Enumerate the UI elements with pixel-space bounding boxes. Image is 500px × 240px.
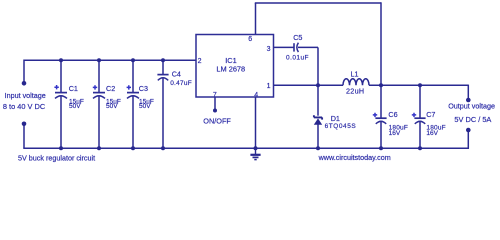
- wire switch node vertical: [317, 47, 319, 115]
- svg-text:C5: C5: [293, 33, 302, 42]
- svg-text:D1: D1: [331, 114, 340, 123]
- wire C1 branch: [60, 60, 62, 148]
- capacitor C1 plus sign: [54, 85, 58, 89]
- wire bottom ground rail: [23, 147, 468, 149]
- node C3 top: [131, 58, 135, 62]
- svg-text:C7: C7: [426, 110, 435, 119]
- node C7 bottom: [418, 146, 422, 150]
- svg-text:6: 6: [248, 36, 252, 43]
- wire C5 to switch node: [298, 46, 318, 48]
- wire output right top stub: [467, 85, 469, 100]
- capacitor C7 plus sign: [412, 113, 416, 117]
- wire feedback vertical: [380, 2, 382, 85]
- svg-text:50V: 50V: [106, 103, 118, 110]
- svg-text:3: 3: [267, 46, 271, 53]
- node feedback junction: [379, 83, 383, 87]
- wire C2 branch: [98, 60, 100, 148]
- node C2 top: [97, 58, 101, 62]
- node pin4 ground: [254, 146, 258, 150]
- svg-text:7: 7: [213, 92, 217, 99]
- capacitor C6 plus sign: [373, 113, 377, 117]
- node input bottom terminal: [22, 122, 27, 127]
- svg-text:Output voltage: Output voltage: [448, 101, 495, 110]
- svg-text:16V: 16V: [426, 130, 438, 137]
- wire C3 branch: [132, 60, 134, 148]
- wire pin1 to L1: [274, 84, 344, 86]
- node pin7 end: [213, 109, 217, 113]
- svg-text:0.01uF: 0.01uF: [286, 54, 309, 61]
- svg-text:C1: C1: [69, 84, 78, 93]
- capacitor C7 symbol: [414, 118, 425, 124]
- wire pin6 to top rail: [255, 3, 257, 35]
- svg-text:5V buck regulator circuit: 5V buck regulator circuit: [18, 153, 95, 162]
- node C4 bottom: [161, 146, 165, 150]
- capacitor C2 plus sign: [93, 85, 97, 89]
- capacitor C2 symbol: [93, 93, 105, 99]
- inductor L1 coil: [343, 79, 369, 86]
- node C6 bottom: [379, 146, 383, 150]
- wire pin7 stub: [214, 97, 216, 111]
- node D1 bottom: [316, 146, 320, 150]
- svg-text:C4: C4: [172, 69, 181, 78]
- wire pin4 to ground rail: [255, 97, 257, 148]
- ground symbol: [250, 148, 260, 160]
- node output top terminal: [466, 98, 471, 103]
- svg-text:4: 4: [254, 92, 258, 99]
- capacitor C4 symbol: [157, 75, 168, 81]
- capacitor C5 symbol: [294, 43, 298, 52]
- wire top feedback rail: [255, 2, 381, 4]
- capacitor C3 plus sign: [127, 85, 131, 89]
- node C1 bottom: [59, 146, 63, 150]
- wire C6 branch: [380, 85, 382, 148]
- svg-text:C2: C2: [106, 84, 115, 93]
- svg-text:C3: C3: [139, 84, 148, 93]
- IC U1 LM2678 body: [196, 35, 274, 98]
- wire C4 branch: [162, 60, 164, 148]
- node switch junction: [316, 83, 320, 87]
- wire pin3 to C5: [274, 46, 294, 48]
- node C2 bottom: [97, 146, 101, 150]
- svg-text:L1: L1: [351, 69, 359, 78]
- wire top input rail: [24, 59, 196, 61]
- svg-text:6TQ045S: 6TQ045S: [325, 123, 357, 130]
- wire output right bottom stub: [467, 130, 469, 149]
- svg-text:www.circuitstoday.com: www.circuitstoday.com: [318, 153, 391, 162]
- svg-text:ON/OFF: ON/OFF: [203, 116, 231, 125]
- svg-text:22uH: 22uH: [346, 87, 364, 96]
- svg-text:50V: 50V: [69, 103, 81, 110]
- svg-text:LM 2678: LM 2678: [216, 65, 245, 74]
- svg-text:0.47uF: 0.47uF: [170, 80, 192, 87]
- wire C7 branch: [419, 85, 421, 148]
- diode D1 schottky symbol: [314, 115, 322, 125]
- node input top terminal: [22, 81, 27, 86]
- wire D1 anode to ground rail: [317, 124, 319, 148]
- wire input left bottom stub: [23, 124, 25, 148]
- svg-text:5V DC / 5A: 5V DC / 5A: [454, 115, 491, 124]
- capacitor C6 symbol: [375, 118, 386, 124]
- svg-text:50V: 50V: [139, 103, 151, 110]
- svg-text:C6: C6: [388, 110, 397, 119]
- node C1 top: [59, 58, 63, 62]
- svg-text:1: 1: [267, 83, 271, 90]
- svg-text:16V: 16V: [389, 130, 401, 137]
- node C3 bottom: [131, 146, 135, 150]
- svg-text:2: 2: [198, 58, 202, 65]
- node output bottom terminal: [466, 128, 471, 133]
- capacitor C3 symbol: [127, 93, 139, 99]
- node C7 top: [418, 83, 422, 87]
- wire L1 to output corner: [369, 84, 468, 86]
- capacitor C1 symbol: [55, 93, 67, 99]
- wire input left top stub: [23, 60, 25, 84]
- svg-text:Input voltage: Input voltage: [5, 91, 46, 100]
- node C4 top: [161, 58, 165, 62]
- svg-text:8 to 40 V DC: 8 to 40 V DC: [3, 102, 46, 111]
